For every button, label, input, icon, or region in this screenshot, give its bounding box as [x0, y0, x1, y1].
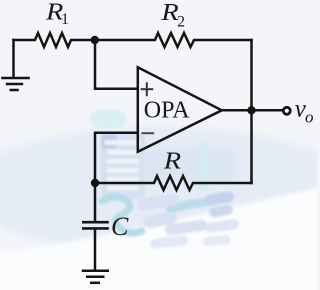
svg-text:C: C [111, 212, 129, 241]
svg-text:1: 1 [61, 11, 69, 28]
svg-text:OPA: OPA [144, 98, 190, 124]
svg-text:R: R [160, 0, 178, 26]
svg-text:2: 2 [177, 14, 185, 31]
svg-text:R: R [163, 147, 181, 173]
svg-text:o: o [305, 108, 314, 127]
